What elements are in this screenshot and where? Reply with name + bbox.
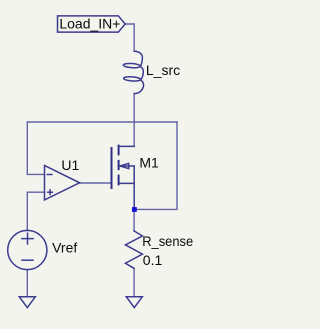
wire source to resistor [133,209,135,231]
wire feedback left [27,122,44,174]
resistor R_sense [125,231,142,268]
wire noninverting input to Vref [27,192,44,230]
junction node source/R_sense/feedback [132,207,137,212]
svg-text:L_src: L_src [146,62,180,78]
wire right branch down [134,122,177,209]
svg-text:M1: M1 [139,155,159,171]
wire Vref to ground [26,270,28,297]
voltage source Vref [8,230,47,269]
ground under Vref [19,297,35,308]
svg-text:Vref: Vref [52,239,77,255]
svg-text:Load_IN+: Load_IN+ [59,16,120,32]
port flag Load_IN+ [58,16,126,32]
svg-text:0.1: 0.1 [143,252,163,268]
inductor L_src [123,51,143,93]
op-amp U1 [45,165,80,200]
wire inductor to drain (crosses rail) [133,94,135,147]
wire port to inductor [125,24,134,51]
svg-text:U1: U1 [61,157,79,173]
ground under R_sense [126,297,142,308]
wire opamp output to gate [80,182,112,184]
wire top rail [27,121,177,123]
svg-text:R_sense: R_sense [142,233,193,249]
transistor M1 [112,146,135,210]
wire resistor to ground [133,268,135,297]
